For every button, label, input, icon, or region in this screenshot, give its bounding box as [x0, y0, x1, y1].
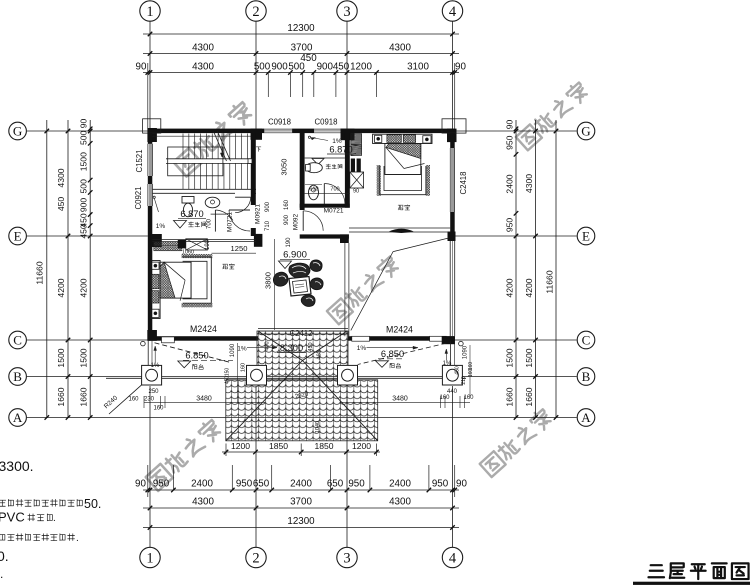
dim text 950 bottom-sub: [348, 479, 365, 490]
grid bubble A right: [577, 409, 595, 427]
svg-text:1500: 1500: [79, 348, 89, 367]
column C-W corner: [147, 330, 156, 341]
svg-text:700: 700: [207, 218, 213, 229]
watermark bottom-left: [145, 418, 223, 491]
window sill box C right-1: [352, 336, 370, 341]
room label bedroom2: [398, 205, 410, 210]
svg-text:C0921: C0921: [134, 187, 143, 210]
stair room south wall: [152, 189, 256, 193]
dim 450 porch: [308, 342, 314, 351]
svg-text:3800: 3800: [264, 272, 273, 289]
svg-text:.: .: [76, 533, 79, 544]
svg-text:3: 3: [343, 4, 350, 20]
svg-text:900: 900: [317, 62, 334, 73]
svg-text:700: 700: [330, 187, 339, 193]
dim 700 bathroom1: [207, 218, 213, 229]
dim 160 left v: [241, 363, 247, 372]
dim text 950 bottom-sub: [432, 479, 449, 490]
partition hall-east: [345, 243, 349, 336]
dim 700 bathroom2: [330, 187, 339, 193]
svg-text:50.: 50.: [84, 497, 101, 511]
dim 230 balcony left: [144, 396, 155, 402]
porch roof hip right: [303, 331, 378, 441]
svg-text:950: 950: [236, 479, 253, 490]
dim text 500 top-sub: [288, 62, 305, 73]
grid bubble C left: [9, 331, 27, 349]
svg-text:8.300: 8.300: [280, 343, 303, 353]
svg-text:C0918: C0918: [268, 118, 291, 127]
dim text 1660 right-inner: [505, 387, 515, 406]
svg-text:4: 4: [449, 4, 457, 20]
grid line 4 bottom: [452, 386, 454, 547]
watermark center: [326, 254, 401, 324]
dim 160 balcony left a: [128, 396, 139, 402]
bathroom2 south wall: [300, 204, 350, 208]
svg-text:.: .: [0, 567, 3, 581]
dim 1090 right: [463, 345, 471, 396]
svg-text:900: 900: [284, 214, 290, 225]
svg-text:150: 150: [225, 368, 231, 377]
grid bubble G right: [577, 122, 595, 140]
svg-text:6.850: 6.850: [381, 349, 404, 359]
dim text 1660 right-mid: [524, 387, 534, 406]
svg-text:230: 230: [144, 396, 155, 402]
svg-text:160: 160: [153, 405, 164, 411]
dim text 4300 left-mid: [56, 168, 66, 187]
grid bubble 4 bottom: [442, 547, 462, 567]
dim line left outer: [45, 120, 50, 420]
wardrobe label 1060: [182, 250, 194, 256]
svg-text:1090: 1090: [463, 345, 469, 359]
dim text 900 top-sub: [271, 62, 288, 73]
door M0923 hall: [303, 211, 323, 231]
grid bubble 1 top: [140, 1, 160, 21]
room label bedroom1: [223, 264, 235, 269]
dim text 450 left-mid: [56, 197, 66, 212]
porch roof hip left: [226, 331, 303, 441]
svg-text:2400: 2400: [505, 174, 515, 193]
dim text 3700 top: [291, 43, 313, 54]
svg-text:450: 450: [333, 62, 350, 73]
window C1521: [148, 144, 153, 176]
dim extension lines bottom: [148, 465, 455, 497]
svg-text:90: 90: [135, 479, 146, 490]
svg-text:1%: 1%: [156, 223, 166, 230]
bed2 pillow right: [403, 135, 415, 143]
wall G segment right: [341, 129, 455, 134]
bed2 pillow left: [387, 135, 401, 143]
svg-text:M092: M092: [293, 213, 300, 230]
dim text 650 bottom-sub: [253, 479, 270, 490]
bed1 headboard: [151, 261, 160, 319]
dim text 500 left-inner: [79, 179, 89, 194]
note floor-drop line: [0, 497, 101, 511]
level triangle bathroom1: [174, 221, 187, 229]
window label C0918 left: [268, 118, 291, 127]
svg-text:450: 450: [300, 53, 317, 64]
svg-text:4200: 4200: [56, 278, 66, 297]
level 6.850 left: [183, 351, 233, 361]
column G-2: [251, 129, 263, 140]
dim 400 porch: [265, 341, 271, 350]
grid bubble 4 top: [442, 1, 462, 21]
dim text 4200 right-inner: [505, 278, 515, 297]
balcony slab edge: [106, 377, 466, 379]
dim 1090 left: [230, 343, 238, 402]
column G-3: [341, 129, 355, 141]
svg-text:900: 900: [79, 198, 89, 213]
dim text 2400 bottom-sub: [191, 479, 213, 490]
wardrobe black box: [178, 240, 186, 249]
svg-text:900: 900: [265, 201, 271, 212]
svg-text:450: 450: [455, 366, 461, 375]
svg-text:1500: 1500: [524, 348, 534, 367]
column G-4 corner: [442, 119, 466, 142]
column E-W: [151, 234, 162, 247]
title third floor plan: [633, 563, 750, 585]
stair well outline: [168, 147, 223, 176]
svg-text:4300: 4300: [192, 43, 214, 54]
svg-text:A: A: [13, 410, 23, 425]
dim 450 right v: [455, 366, 461, 375]
svg-text:C: C: [582, 333, 591, 348]
grid line 1 top: [149, 21, 151, 128]
dim line bottom 12300: [143, 525, 459, 530]
bed2 strip right: [426, 165, 430, 196]
svg-text:500: 500: [79, 130, 89, 145]
wall E-side segment 1: [450, 133, 455, 148]
svg-text:90: 90: [79, 119, 89, 129]
slope 1% bathroom1: [153, 196, 165, 230]
svg-text:4200: 4200: [79, 278, 89, 297]
dim 2920 porch: [295, 392, 310, 401]
svg-text:1: 1: [146, 551, 153, 567]
balcony column 1: [142, 365, 162, 385]
stair direction arrow: [220, 136, 223, 157]
stair label down: [256, 147, 261, 152]
svg-text:90: 90: [505, 120, 515, 130]
level 6.870 bathroom1: [178, 209, 206, 219]
svg-text:C: C: [13, 333, 22, 348]
svg-text:2: 2: [252, 4, 259, 20]
bed2 side box left: [375, 135, 382, 142]
dim line top sub: [143, 70, 459, 75]
svg-text:11660: 11660: [35, 261, 45, 284]
window sill box C left: [162, 337, 175, 343]
dim text 4300 top-left: [192, 43, 214, 54]
grid line 4 top: [452, 21, 454, 128]
grid bubble E left: [9, 227, 27, 245]
window C2412 head: [258, 329, 348, 334]
grid bubble C right: [577, 331, 595, 349]
svg-text:3700: 3700: [290, 497, 312, 508]
svg-text:610: 610: [309, 187, 318, 193]
grid line A: [27, 417, 577, 419]
dim text 11660 right: [545, 270, 555, 293]
dim text 1200 top-sub: [350, 62, 372, 73]
dim text 450 left-inner: [79, 224, 89, 239]
dim text 90 bottom-sub: [135, 479, 146, 490]
washbasin bathroom1: [205, 197, 226, 214]
dim text 90 bottom-sub: [456, 479, 467, 490]
svg-text:G: G: [13, 124, 22, 139]
svg-text:650: 650: [327, 479, 344, 490]
dim text 950 right-inner: [505, 135, 515, 150]
svg-text:1%: 1%: [237, 346, 247, 353]
svg-text:1090: 1090: [230, 343, 236, 357]
svg-text:1: 1: [146, 4, 153, 20]
dim line right inner: [514, 120, 519, 420]
svg-text:4300: 4300: [192, 497, 214, 508]
level 6.900 hall: [280, 250, 310, 261]
dim line bottom sub: [143, 488, 459, 493]
svg-text:160: 160: [468, 369, 474, 378]
dim text 1200 porch: [352, 441, 371, 451]
svg-text:1500: 1500: [79, 152, 89, 171]
porch level 8.300: [277, 343, 306, 353]
svg-text:90: 90: [353, 189, 359, 195]
balcony label right: [390, 363, 401, 368]
grid bubble G left: [9, 122, 27, 140]
slope 1% balcony left: [237, 346, 277, 353]
svg-text:90: 90: [136, 62, 147, 73]
drain circle left: [141, 341, 146, 346]
dim text 500 left-inner: [79, 130, 89, 145]
svg-text:M0721: M0721: [324, 208, 344, 215]
balcony column 2: [247, 365, 267, 385]
svg-text:440: 440: [447, 389, 458, 395]
svg-text:90: 90: [456, 479, 467, 490]
svg-text:PVC: PVC: [0, 510, 25, 525]
svg-text:450: 450: [56, 197, 66, 212]
svg-text:4300: 4300: [389, 497, 411, 508]
hall inner line: [274, 239, 276, 330]
dim text 2400 bottom-sub: [290, 479, 312, 490]
balcony column 3: [338, 365, 358, 385]
dim 160 right v1: [468, 362, 474, 371]
duct x-box: [350, 172, 364, 188]
grid bubble E right: [577, 227, 595, 245]
toilet bathroom1: [182, 197, 194, 217]
dim text 950 right-inner: [505, 218, 515, 233]
dim text 1850 porch: [314, 441, 333, 451]
dim text 12300 bottom: [287, 516, 315, 527]
svg-text:1660: 1660: [79, 387, 89, 406]
svg-text:G: G: [581, 124, 590, 139]
svg-text:400: 400: [265, 341, 271, 350]
grid line 1 bottom: [149, 386, 151, 547]
wall W segment 3: [148, 206, 153, 336]
toilet bathroom2: [306, 163, 323, 173]
svg-text:3300.: 3300.: [0, 458, 34, 474]
duct coil upper: [351, 134, 362, 145]
dim text 90 left-inner: [79, 119, 89, 129]
balcony edge left: [148, 341, 152, 371]
dim text 450 top-sub-upper: [300, 53, 317, 64]
svg-text:4300: 4300: [192, 62, 214, 73]
grid bubble 3 bottom: [337, 547, 357, 567]
svg-text:90: 90: [455, 62, 466, 73]
level 6.870 bathroom2: [327, 145, 356, 155]
svg-text:160: 160: [241, 363, 247, 372]
bed1 fold: [160, 262, 191, 301]
slope 1% bathroom2: [308, 136, 342, 145]
grid bubble 2 bottom: [246, 547, 266, 567]
dim text 3100 top-sub: [407, 62, 429, 73]
duct black bars: [351, 159, 361, 173]
grid line 3 top: [346, 21, 348, 128]
window sill box C right-2: [430, 336, 447, 341]
svg-text:1%: 1%: [151, 363, 160, 369]
dim 900 lobby: [284, 214, 290, 225]
svg-text:190: 190: [205, 239, 211, 250]
svg-text:4: 4: [449, 551, 457, 567]
balcony column 4: [442, 365, 462, 385]
dim line right outer: [554, 120, 559, 420]
dim 1250 bathroom1: [212, 244, 257, 253]
wall E mid segment: [300, 234, 349, 238]
level 6.850 right: [378, 349, 404, 359]
note size note: [0, 533, 79, 544]
wall C segment right: [348, 336, 455, 341]
room label bathroom1: [189, 222, 206, 227]
column E-2: [254, 234, 263, 247]
column E-E: [448, 232, 456, 242]
dim line left mid: [66, 120, 71, 420]
watermark top-left: [173, 100, 255, 176]
window C0921: [148, 184, 153, 206]
room label bathroom2: [326, 164, 342, 169]
svg-text:1%: 1%: [357, 345, 367, 352]
svg-text:1250: 1250: [231, 244, 248, 253]
dim text 1500 left-mid: [56, 348, 66, 367]
dim 3480 balcony right: [392, 395, 408, 402]
svg-text:1660: 1660: [505, 387, 515, 406]
grid bubble 3 top: [337, 1, 357, 21]
bed2 side box right: [423, 136, 431, 143]
note PVC: [0, 510, 56, 525]
level triangle hall: [279, 261, 292, 269]
note 0.: [0, 548, 9, 564]
wall C segment left: [148, 336, 258, 341]
watermark top-center-right: [515, 80, 590, 150]
svg-text:3100: 3100: [407, 62, 429, 73]
svg-text:1850: 1850: [314, 441, 333, 451]
dim text 450 left-inner: [79, 213, 89, 228]
bathroom2 west wall: [300, 133, 305, 210]
dim 440 balcony right: [447, 389, 458, 395]
svg-text:2400: 2400: [191, 479, 213, 490]
dim 3480 balcony left: [196, 395, 212, 402]
duct coil lower: [351, 145, 362, 156]
wardrobe x-box: [186, 239, 208, 250]
dim 90 duct: [353, 189, 359, 195]
dim text 4300 bottom: [389, 497, 411, 508]
dim line top 12300: [143, 32, 459, 37]
svg-text:6.870: 6.870: [329, 145, 352, 155]
svg-text:3480: 3480: [392, 395, 408, 402]
dim text 2400 bottom-sub: [389, 479, 411, 490]
window label C0921: [134, 187, 143, 210]
dim text 4300 right-mid: [524, 174, 534, 193]
dim text 2400 right-inner: [505, 174, 515, 193]
grid bubble A left: [9, 409, 27, 427]
column G-1 corner: [143, 119, 161, 142]
svg-text:500: 500: [79, 179, 89, 194]
door M0921 bedroom1: [229, 210, 250, 231]
dim 210 right v: [461, 376, 467, 385]
svg-text:1040: 1040: [315, 421, 321, 433]
grid bubble 1 bottom: [140, 547, 160, 567]
dim extension porch: [226, 444, 376, 457]
dim 3050 bathroom2: [280, 159, 289, 176]
wall G segment left: [148, 129, 264, 134]
svg-text:4300: 4300: [389, 43, 411, 54]
svg-text:4300: 4300: [56, 168, 66, 187]
dim 190 bedroom1: [205, 239, 211, 250]
door label M2424 right: [386, 325, 413, 335]
bed1 side box bottom: [152, 309, 159, 317]
dim text 500 top-sub: [254, 62, 271, 73]
svg-text:3050: 3050: [280, 159, 289, 176]
svg-text:E: E: [582, 229, 590, 244]
grid bubble B right: [577, 368, 595, 386]
door chords east room: [351, 238, 449, 331]
wardrobe hatch strips: [154, 242, 182, 251]
stair treads: [152, 134, 250, 190]
dim 250 balcony left: [148, 389, 159, 395]
dim line left inner: [88, 120, 93, 420]
dim text 950 bottom-sub: [153, 479, 170, 490]
dim text 900 top-sub: [317, 62, 334, 73]
stair mid rail: [166, 159, 252, 164]
svg-text:1500: 1500: [505, 348, 515, 367]
dim 160 balcony right b: [463, 395, 474, 401]
dim text 4200 left-mid: [56, 278, 66, 297]
dim text 90 right-inner: [505, 120, 515, 130]
svg-text:160: 160: [439, 395, 450, 401]
porch roof tiles lower: [226, 380, 378, 441]
svg-text:3480: 3480: [196, 395, 212, 402]
dim text 90 top-sub: [455, 62, 466, 73]
dim text 3700 bottom: [290, 497, 312, 508]
dim 460 porch: [317, 350, 323, 359]
dim line bottom 4300-3700-4300: [143, 506, 459, 511]
porch roof tiles upper: [257, 331, 348, 380]
slope 1% balcony right: [357, 345, 418, 352]
bed2 headboard: [373, 134, 432, 143]
dim text 4300 top-sub: [192, 62, 214, 73]
slope 1% column4: [443, 349, 452, 367]
svg-text:B: B: [13, 369, 22, 384]
svg-text:E: E: [14, 229, 22, 244]
grid line 2 bottom: [255, 386, 257, 547]
dashed line balcony left: [155, 343, 232, 363]
dim text 4300 top-right: [389, 43, 411, 54]
dim line right mid: [533, 120, 538, 420]
svg-text:950: 950: [153, 479, 170, 490]
svg-text:M2424: M2424: [190, 324, 217, 334]
window label C2412: [290, 329, 313, 338]
svg-text:950: 950: [348, 479, 365, 490]
dim text 1200 porch: [231, 441, 250, 451]
washbasin bathroom2: [305, 185, 322, 200]
svg-text:4200: 4200: [524, 278, 534, 297]
column E-3: [340, 234, 349, 243]
shower triangle bathroom2: [312, 159, 324, 165]
svg-text:6.870: 6.870: [180, 209, 203, 219]
dim text 1500 right-inner: [505, 348, 515, 367]
